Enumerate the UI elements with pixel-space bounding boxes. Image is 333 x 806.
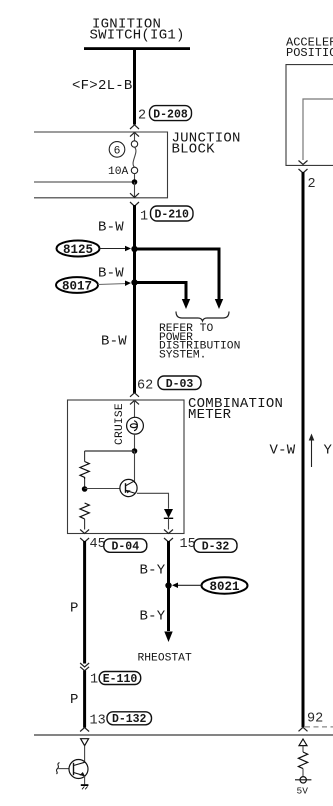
- svg-text:D-210: D-210: [154, 209, 189, 222]
- wire B-W trunk: [133, 205, 136, 393]
- pin 2 chevrons (sensor exit): [299, 161, 308, 173]
- pin 15 chevrons: [164, 530, 173, 542]
- svg-text:Y: Y: [324, 443, 333, 459]
- svg-text:SWITCH(IG1): SWITCH(IG1): [90, 28, 185, 44]
- svg-text:RHEOSTAT: RHEOSTAT: [138, 653, 192, 665]
- 5V supply terminal: [295, 777, 311, 783]
- wire P (pin45 down): [83, 541, 86, 664]
- sensor element box: [303, 99, 333, 160]
- connector D-210: [151, 206, 194, 222]
- svg-text:2: 2: [138, 109, 146, 124]
- wire emitter to diode: [137, 493, 169, 509]
- svg-text:P: P: [70, 601, 79, 617]
- wire V-W trunk: [302, 172, 305, 727]
- svg-text:5V: 5V: [297, 786, 309, 797]
- connector chevrons at junction block bottom: [130, 193, 139, 206]
- wire into lamp: [134, 400, 136, 417]
- splice 8017: [56, 277, 131, 293]
- svg-text:92: 92: [307, 712, 323, 727]
- node: fuse output junction: [132, 179, 138, 185]
- connector D-03: [158, 376, 201, 391]
- svg-text:13: 13: [90, 714, 106, 729]
- arrow to rheostat: [164, 632, 172, 643]
- svg-text:<F>2L-B: <F>2L-B: [72, 78, 133, 94]
- wire node to resistor chain: [85, 450, 135, 452]
- svg-text:8125: 8125: [63, 243, 93, 257]
- connector E-110: [99, 672, 141, 686]
- wire P continues: [83, 671, 86, 728]
- svg-text:B-Y: B-Y: [140, 563, 166, 579]
- branch wire to power distribution 2: [135, 283, 187, 300]
- svg-text:15: 15: [180, 537, 196, 552]
- ignition switch label: [90, 17, 185, 44]
- svg-text:2: 2: [308, 177, 316, 192]
- transistor Q1 (meter): [120, 479, 137, 496]
- internal triangle at pin 92: [299, 739, 307, 746]
- svg-text:V-W: V-W: [270, 443, 296, 459]
- connector chevrons at junction block top: [130, 125, 139, 137]
- resistor R1: [80, 451, 89, 489]
- branch wire to power distribution 1: [135, 249, 220, 300]
- wire base: [85, 488, 121, 490]
- transistor Q2 (ECU driver): [69, 760, 88, 779]
- junction block bus line: [34, 181, 135, 183]
- internal triangle at pin 13: [81, 739, 89, 746]
- svg-text:D-03: D-03: [166, 378, 194, 391]
- svg-text:8017: 8017: [62, 280, 92, 294]
- svg-text:1: 1: [90, 673, 98, 688]
- diode D1: [164, 509, 173, 518]
- wire emitter to ground: [84, 776, 86, 785]
- wire lamp to node: [134, 434, 136, 451]
- svg-text:D-32: D-32: [202, 541, 230, 554]
- combination meter box: [68, 400, 185, 534]
- combination meter label: [188, 396, 283, 423]
- svg-text:CRUISE: CRUISE: [114, 403, 126, 445]
- direction arrow up: [309, 434, 315, 468]
- junction block label: [172, 131, 241, 158]
- wire from junction to JB bottom: [134, 182, 136, 197]
- connector D-04: [104, 539, 147, 554]
- ground (chassis): [81, 784, 89, 789]
- fuse F6: [131, 133, 137, 182]
- node splice 8021: [165, 582, 171, 588]
- pin 45 chevrons: [80, 530, 89, 542]
- inline connector E-110 chevrons: [80, 663, 89, 671]
- svg-text:SYSTEM.: SYSTEM.: [159, 349, 206, 361]
- wire IG1 feed (thick B): [133, 50, 136, 125]
- brace under arrows: [176, 312, 229, 322]
- svg-text:POSITION SENSOR: POSITION SENSOR: [286, 46, 333, 60]
- wire triangle to resistor: [302, 746, 304, 752]
- splice 8021: [172, 577, 248, 594]
- node under lamp: [132, 448, 138, 454]
- svg-text:BLOCK: BLOCK: [172, 142, 216, 158]
- wire node to transistor collector: [134, 451, 136, 483]
- svg-text:6: 6: [114, 146, 121, 158]
- svg-text:METER: METER: [188, 407, 232, 423]
- svg-text:P: P: [70, 692, 79, 708]
- svg-text:B-W: B-W: [98, 220, 124, 236]
- wire B-Y (pin15 down): [167, 541, 170, 631]
- svg-text:1: 1: [140, 210, 148, 225]
- wire triangle to transistor: [84, 746, 86, 762]
- node resistor junction: [82, 486, 88, 492]
- svg-text:E-110: E-110: [103, 673, 138, 686]
- svg-text:10A: 10A: [108, 166, 129, 178]
- svg-text:8021: 8021: [209, 580, 239, 594]
- node splice 8017: [131, 279, 137, 285]
- accelerator position sensor box: [286, 65, 333, 166]
- junction block box: [34, 132, 168, 198]
- svg-text:D-132: D-132: [112, 713, 147, 726]
- wire base (bottom transistor): [59, 768, 70, 770]
- svg-text:62: 62: [137, 379, 153, 394]
- chevron at ECU pin 92: [299, 727, 308, 731]
- resistor R2: [80, 503, 89, 530]
- svg-text:D-04: D-04: [111, 541, 139, 554]
- connector D-208: [150, 106, 192, 122]
- lamp CRUISE: [127, 417, 144, 434]
- break squiggle on base wire: [56, 763, 59, 775]
- splice 8125: [57, 241, 132, 258]
- svg-text:B-W: B-W: [98, 266, 124, 282]
- ECU box top line: [34, 734, 333, 736]
- fuse number 6: [109, 142, 125, 158]
- accelerator position sensor label: [286, 35, 333, 60]
- svg-text:D-208: D-208: [153, 108, 188, 121]
- node splice 8125: [131, 246, 137, 252]
- dashed ECU boundary: [305, 726, 333, 728]
- resistor R3 (pull-up): [298, 752, 307, 769]
- connector D-32: [194, 539, 237, 554]
- svg-text:B-Y: B-Y: [140, 609, 166, 625]
- chevron at ECU pin 13: [80, 728, 89, 732]
- connector chevrons at combination meter entry: [130, 393, 139, 405]
- svg-text:B-W: B-W: [101, 334, 127, 350]
- wire diode to pin 15: [168, 518, 170, 529]
- wire resistor to 5V: [302, 769, 304, 777]
- ignition switch bus bar: [84, 47, 190, 50]
- note: refer to power distribution system: [159, 323, 240, 361]
- connector D-132: [107, 712, 152, 726]
